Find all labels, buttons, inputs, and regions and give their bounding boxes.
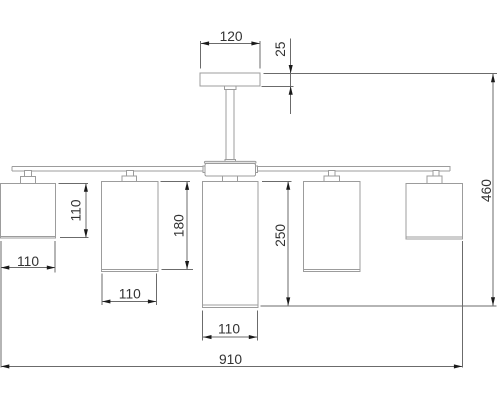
lamp 1 socket: [21, 176, 36, 183]
dim 110 shade3 width line: [203, 336, 258, 338]
dim 120 ext lines: [200, 41, 202, 69]
dim 110 shade1 width arrows: [1, 266, 9, 270]
svg-text:910: 910: [219, 352, 242, 367]
dim 250 line: [287, 181, 289, 305]
dim 250 ext top: [262, 180, 291, 182]
dim 120 line: [201, 42, 260, 44]
dim 460 arrows: [491, 74, 495, 82]
centre shade connector: [223, 176, 238, 181]
shade 4: [304, 181, 360, 271]
dim 110 shade1 width line: [1, 267, 55, 269]
shade 5: [406, 183, 462, 239]
shade 2: [102, 181, 158, 271]
lamp 5 socket: [427, 176, 442, 183]
hub side tab left: [203, 166, 205, 173]
hub side tab right: [256, 166, 258, 173]
svg-text:110: 110: [17, 254, 39, 269]
svg-text:460: 460: [479, 179, 494, 202]
lamp 2 socket: [122, 176, 137, 181]
stem rod: [226, 89, 234, 159]
dim 110 shade1 height arrows: [84, 183, 88, 191]
dim 110 shade1 height ext lines: [59, 182, 88, 184]
dim 180 ext lines: [160, 181, 190, 183]
dim 180 line: [186, 182, 188, 270]
dim 110 shade3 width ext lines: [202, 310, 204, 340]
dim 250 arrows: [286, 181, 290, 189]
dim 910 right ext: [461, 241, 463, 367]
dim 110 shade2 width ext lines: [101, 274, 103, 305]
stem flare: [225, 159, 235, 161]
dim 460 line: [492, 73, 494, 306]
svg-text:110: 110: [119, 286, 141, 301]
lamp 4 socket: [324, 176, 339, 181]
svg-text:25: 25: [273, 41, 288, 57]
svg-text:110: 110: [218, 321, 240, 336]
dim 25 ext top (shared with 460): [264, 72, 497, 74]
svg-text:120: 120: [220, 29, 243, 44]
dim 25 line: [290, 39, 292, 115]
hub body: [205, 163, 256, 176]
shade 1: [1, 184, 56, 239]
dim 110 shade1 height line: [85, 183, 87, 237]
lamp 5 stem: [433, 171, 439, 176]
canopy collar: [225, 86, 237, 89]
dim 910 arrows: [1, 364, 9, 368]
svg-text:110: 110: [68, 199, 83, 221]
lamp 4 stem: [329, 171, 336, 177]
lamp 1 stem: [24, 171, 31, 177]
canopy plate: [200, 73, 260, 86]
dim 25 ext bottom: [262, 85, 294, 87]
dim 120 arrows: [201, 41, 209, 45]
dim 110 shade3 width arrows: [203, 335, 211, 339]
dim 110 shade1 width ext lines: [0, 241, 2, 367]
hub top band: [204, 161, 256, 163]
svg-text:180: 180: [172, 214, 187, 237]
svg-text:250: 250: [273, 224, 288, 247]
horizontal mounting bar: [12, 166, 450, 171]
dim 110 shade2 width arrows: [102, 299, 110, 303]
dim 110 shade2 width line: [102, 301, 157, 303]
shade 3: [202, 181, 258, 307]
dim 910 line: [1, 365, 462, 367]
dim 180 arrows: [185, 182, 189, 190]
lamp 2 stem: [127, 171, 134, 177]
dim 25 arrows: [289, 65, 293, 73]
dim 250/460 shared bottom ext: [261, 305, 497, 307]
